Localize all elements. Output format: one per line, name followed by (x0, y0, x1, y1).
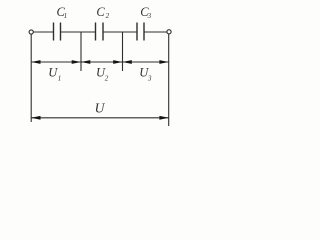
svg-text:2: 2 (106, 12, 110, 20)
svg-text:1: 1 (58, 74, 62, 82)
svg-text:3: 3 (147, 12, 152, 20)
svg-text:3: 3 (147, 74, 152, 82)
svg-text:1: 1 (64, 12, 68, 20)
svg-text:C: C (96, 5, 105, 19)
svg-text:2: 2 (105, 74, 109, 82)
svg-text:U: U (95, 101, 106, 116)
